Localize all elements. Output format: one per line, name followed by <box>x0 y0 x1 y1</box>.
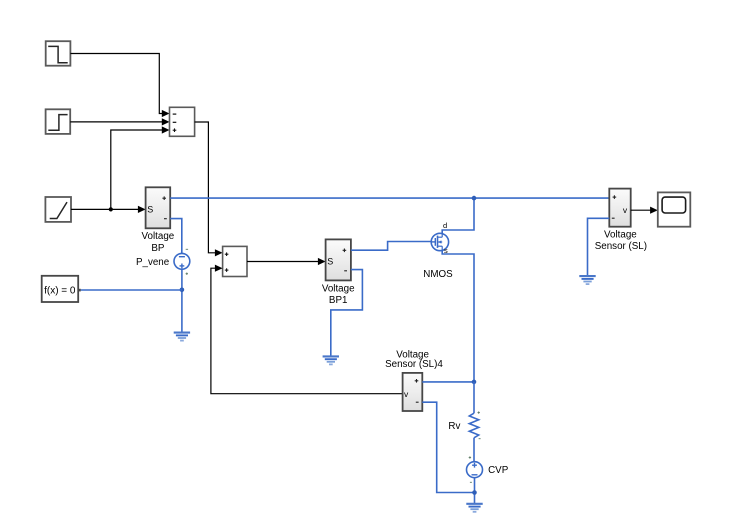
Voltage Sensor (SL) block <box>595 189 647 252</box>
wire step to sum input 2 <box>70 118 169 125</box>
wire NMOS drain up to node on long line <box>442 198 474 233</box>
wire sum1 output to sum2 input 1 <box>195 122 223 256</box>
wire sensor4 plus to node <box>422 381 474 383</box>
wire sensor4 v to sum2 input 2 <box>211 265 403 394</box>
wire P_vene bottom to ground <box>181 269 183 332</box>
wire f(x)=0 to node <box>81 289 182 291</box>
svg-text:NMOS: NMOS <box>423 269 453 280</box>
node junction drain on long line <box>472 196 477 201</box>
node junction CVP return <box>472 490 477 495</box>
ground below Voltage Sensor (SL) <box>579 276 595 284</box>
ground below BP1 <box>323 356 339 364</box>
Voltage BP1 block <box>322 239 355 306</box>
solver configuration block f(x) = 0 <box>42 276 81 302</box>
sum block Add1 <box>170 107 195 136</box>
svg-text:BP1: BP1 <box>329 295 348 306</box>
svg-text:CVP: CVP <box>488 465 509 476</box>
wire sensor minus to ground <box>588 218 610 275</box>
wire ramp to Voltage BP input <box>71 206 146 213</box>
wire BP minus to P_vene top <box>170 219 182 254</box>
voltage source CVP <box>467 456 509 482</box>
wire CVP bottom to ground <box>474 478 476 503</box>
svg-text:Voltage: Voltage <box>322 283 355 294</box>
svg-text:Voltage: Voltage <box>142 231 175 242</box>
wire BP1 minus to ground <box>331 270 363 356</box>
long blue wire BP plus to Voltage Sensor SL plus <box>170 197 609 199</box>
wire BP1 plus to NMOS gate <box>351 242 431 251</box>
node junction f(x) line meets P_vene ground line <box>180 288 185 293</box>
svg-text:S: S <box>327 256 333 266</box>
resistor Rv <box>448 411 480 438</box>
node junction sensor4 plus <box>472 380 477 385</box>
wire branch junction to sum input 3 <box>111 126 170 209</box>
wire resistor to CVP top <box>473 438 475 462</box>
wire sensor v output to scope <box>631 207 658 214</box>
sum block Add2 <box>223 246 247 276</box>
svg-text:P_vene: P_vene <box>136 257 170 268</box>
scope block <box>658 192 691 226</box>
svg-text:S: S <box>147 204 153 214</box>
wire pulse to sum input 1 <box>70 54 169 118</box>
svg-text:Rv: Rv <box>448 421 460 432</box>
transistor NMOS <box>423 221 453 280</box>
wire NMOS source down to sensor node <box>442 250 474 382</box>
svg-text:Sensor (SL)4: Sensor (SL)4 <box>385 359 443 370</box>
wire sensor4 minus to CVP bottom node <box>422 402 474 492</box>
junction on ramp wire <box>109 207 113 211</box>
wire node down to resistor <box>473 382 475 413</box>
svg-text:Voltage: Voltage <box>604 230 637 241</box>
Voltage BP block <box>142 187 175 254</box>
svg-text:f(x) = 0: f(x) = 0 <box>44 286 76 297</box>
svg-text:v: v <box>623 205 628 215</box>
svg-text:d: d <box>443 221 447 230</box>
Voltage Sensor (SL)4 block <box>385 349 443 411</box>
ground below P_vene <box>174 333 190 341</box>
ground below CVP <box>466 504 482 512</box>
ramp source block <box>45 197 71 222</box>
svg-text:Sensor (SL): Sensor (SL) <box>595 241 647 252</box>
pulse source block <box>46 41 71 65</box>
wire sum2 output to Voltage BP1 input <box>247 258 326 265</box>
step source block <box>46 109 71 134</box>
voltage source P_vene <box>136 249 190 275</box>
svg-text:BP: BP <box>151 243 165 254</box>
